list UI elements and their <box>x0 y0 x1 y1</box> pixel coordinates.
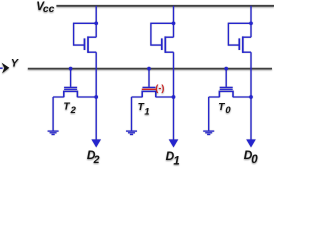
svg-text:2: 2 <box>93 154 100 166</box>
svg-text:cc: cc <box>43 4 55 15</box>
svg-text:0: 0 <box>251 154 258 166</box>
svg-text:1: 1 <box>144 106 149 117</box>
svg-text:T: T <box>218 102 225 113</box>
svg-text:0: 0 <box>225 104 231 115</box>
svg-text:T: T <box>63 102 70 113</box>
svg-text:2: 2 <box>70 104 77 115</box>
svg-text:(-): (-) <box>155 83 164 93</box>
svg-text:1: 1 <box>173 156 179 167</box>
